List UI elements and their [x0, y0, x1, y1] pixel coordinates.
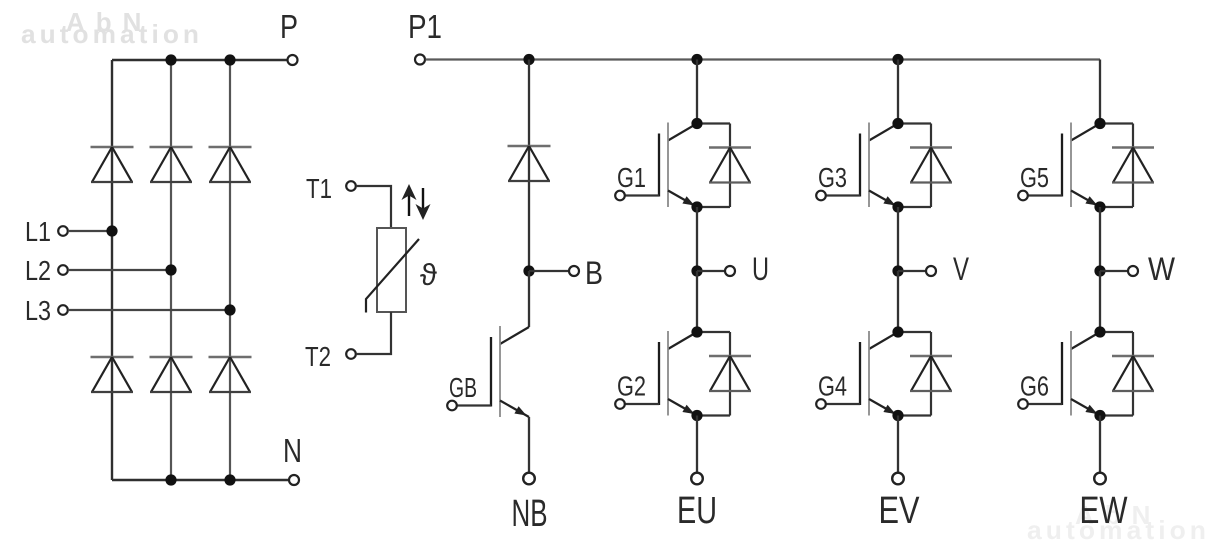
svg-text:L2: L2 — [25, 255, 51, 286]
svg-text:N: N — [283, 432, 302, 469]
svg-text:L1: L1 — [25, 216, 51, 247]
svg-text:P: P — [280, 8, 298, 45]
svg-text:EU: EU — [677, 490, 717, 532]
svg-text:G2: G2 — [617, 371, 646, 402]
svg-text:GB: GB — [449, 372, 477, 403]
svg-text:L3: L3 — [25, 295, 51, 326]
svg-text:G3: G3 — [818, 162, 847, 193]
svg-text:NB: NB — [512, 493, 548, 535]
svg-text:T1: T1 — [306, 173, 332, 204]
svg-text:P1: P1 — [408, 8, 442, 45]
svg-text:G6: G6 — [1020, 371, 1049, 402]
svg-text:G5: G5 — [1020, 162, 1049, 193]
svg-text:T2: T2 — [305, 341, 331, 372]
svg-text:W: W — [1148, 251, 1176, 287]
svg-text:G1: G1 — [617, 162, 646, 193]
svg-text:ϑ: ϑ — [420, 257, 437, 292]
svg-text:G4: G4 — [818, 371, 847, 402]
svg-text:EV: EV — [879, 490, 921, 532]
svg-text:EW: EW — [1080, 490, 1128, 532]
svg-text:U: U — [752, 251, 769, 287]
svg-text:automation: automation — [21, 19, 203, 49]
svg-text:B: B — [585, 255, 603, 291]
svg-text:V: V — [953, 251, 969, 287]
